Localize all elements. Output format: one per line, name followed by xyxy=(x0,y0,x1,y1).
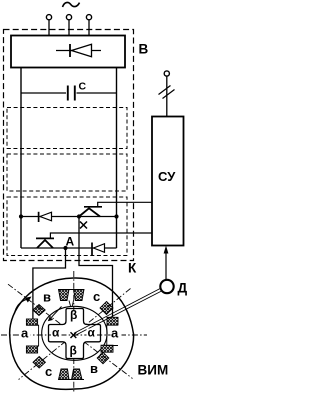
svg-text:с: с xyxy=(93,289,100,304)
svg-text:С: С xyxy=(79,81,87,93)
svg-text:а: а xyxy=(21,326,29,341)
svg-text:α: α xyxy=(52,326,60,340)
svg-text:β: β xyxy=(70,308,77,322)
svg-text:А: А xyxy=(66,235,75,249)
svg-text:α: α xyxy=(88,326,96,340)
svg-text:К: К xyxy=(128,261,137,276)
svg-text:а: а xyxy=(111,326,119,341)
svg-text:В: В xyxy=(139,42,149,57)
svg-text:ВИМ: ВИМ xyxy=(138,363,169,378)
svg-text:β: β xyxy=(70,344,77,358)
svg-text:с: с xyxy=(45,364,52,379)
svg-text:Д: Д xyxy=(178,281,188,296)
svg-text:СУ: СУ xyxy=(158,169,176,184)
svg-text:в: в xyxy=(43,290,51,305)
svg-text:в: в xyxy=(90,361,98,376)
